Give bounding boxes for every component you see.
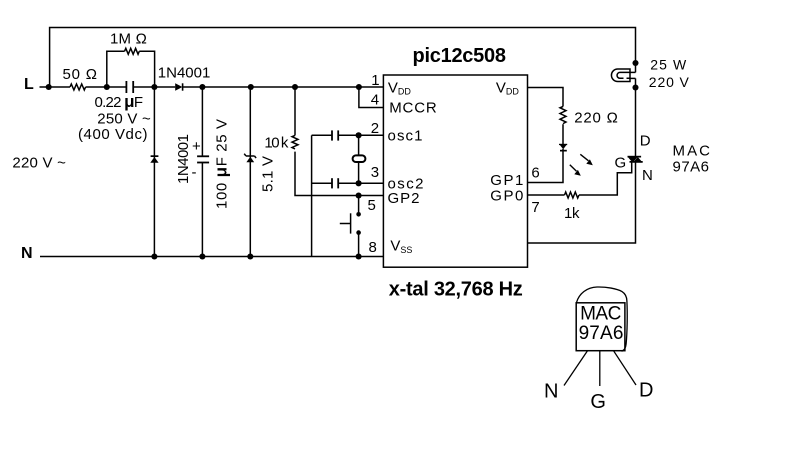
svg-text:220 Ω: 220 Ω xyxy=(574,110,618,127)
svg-text:G: G xyxy=(590,391,606,413)
svg-text:x-tal 32,768 Hz: x-tal 32,768 Hz xyxy=(389,278,523,300)
svg-text:N: N xyxy=(642,167,653,184)
svg-text:7: 7 xyxy=(531,199,539,216)
svg-text:GP1: GP1 xyxy=(490,172,523,189)
svg-text:97A6: 97A6 xyxy=(673,159,710,176)
svg-text:3: 3 xyxy=(371,164,379,181)
svg-text:G: G xyxy=(615,155,627,172)
svg-text:8: 8 xyxy=(369,239,377,256)
svg-text:(400 Vdc): (400 Vdc) xyxy=(78,126,148,143)
svg-text:MAC: MAC xyxy=(580,304,621,325)
svg-text:2: 2 xyxy=(371,120,379,137)
svg-text:100 μF 25 V: 100 μF 25 V xyxy=(212,119,231,209)
svg-text:6: 6 xyxy=(531,165,539,182)
svg-text:VDD: VDD xyxy=(496,80,520,97)
svg-text:GP2: GP2 xyxy=(388,190,420,207)
svg-text:5.1 V: 5.1 V xyxy=(260,156,277,192)
svg-text:osc1: osc1 xyxy=(388,128,423,145)
svg-text:N: N xyxy=(21,245,33,262)
svg-text:D: D xyxy=(639,379,653,401)
svg-text:220 V: 220 V xyxy=(649,74,690,90)
svg-text:1N4001: 1N4001 xyxy=(175,134,192,184)
svg-text:50 Ω: 50 Ω xyxy=(63,66,98,83)
svg-text:D: D xyxy=(640,133,651,150)
svg-text:L: L xyxy=(24,76,34,93)
svg-text:pic12c508: pic12c508 xyxy=(413,45,507,67)
svg-text:MCCR: MCCR xyxy=(389,100,437,117)
svg-text:GP0: GP0 xyxy=(490,188,523,205)
svg-text:VSS: VSS xyxy=(390,238,412,256)
svg-text:1M Ω: 1M Ω xyxy=(110,30,147,47)
svg-text:1: 1 xyxy=(371,72,379,89)
svg-text:10 k: 10 k xyxy=(264,135,289,152)
svg-text:220 V ~: 220 V ~ xyxy=(12,154,66,171)
svg-text:4: 4 xyxy=(371,92,379,109)
svg-text:0.22 μF: 0.22 μF xyxy=(95,92,144,111)
svg-text:1N4001: 1N4001 xyxy=(158,65,211,82)
svg-text:97A6: 97A6 xyxy=(579,323,624,344)
svg-text:1k: 1k xyxy=(564,205,580,222)
svg-text:25 W: 25 W xyxy=(650,56,687,72)
svg-text:+: + xyxy=(192,138,201,155)
svg-text:MAC: MAC xyxy=(673,143,711,160)
svg-text:N: N xyxy=(544,381,558,403)
svg-text:VDD: VDD xyxy=(388,80,412,97)
svg-text:5: 5 xyxy=(368,197,376,214)
svg-text:-: - xyxy=(192,164,197,181)
